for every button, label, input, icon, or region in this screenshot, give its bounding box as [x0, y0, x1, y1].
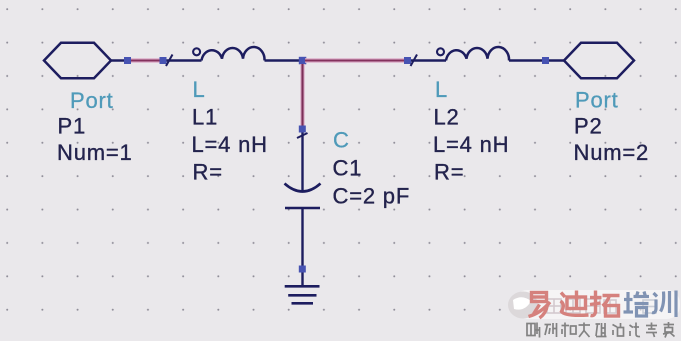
svg-text:Port: Port — [70, 88, 114, 113]
wire net2 horizontal — [305, 58, 405, 63]
watermark char 易 — [529, 293, 551, 319]
watermark background bar — [514, 290, 680, 319]
watermark char 迪 — [561, 291, 589, 316]
pin square P1 term — [124, 57, 131, 64]
svg-text:L1: L1 — [192, 105, 218, 130]
inductor L2 — [411, 47, 542, 60]
svg-text:L=4 nH: L=4 nH — [192, 132, 268, 157]
svg-text:Port: Port — [575, 88, 619, 113]
watermark logo ellipse — [508, 292, 538, 319]
pin square L2 pin1 — [404, 57, 411, 64]
pin square L1 pin1 — [160, 57, 167, 64]
svg-text:L=4 nH: L=4 nH — [433, 132, 509, 157]
svg-text:L: L — [435, 77, 448, 102]
capacitor C1 — [285, 133, 321, 287]
watermark char 训 — [652, 291, 676, 318]
watermark faint under-text — [547, 299, 656, 313]
inductor L1 — [167, 47, 301, 61]
pin 1 tick L2 — [411, 55, 418, 67]
svg-text:C1: C1 — [333, 156, 363, 181]
port P1 — [44, 43, 125, 79]
watermark tagline 射频和天线设计专家 — [527, 322, 675, 338]
ground — [285, 286, 320, 303]
svg-text:P1: P1 — [58, 114, 87, 139]
label Port P1 — [57, 88, 133, 165]
label L1 — [192, 77, 268, 185]
wire net1 — [131, 58, 160, 63]
svg-text:R=: R= — [193, 160, 223, 185]
svg-text:P2: P2 — [574, 114, 603, 139]
svg-text:R=: R= — [434, 160, 464, 185]
pin 1 tick C1 — [297, 133, 308, 138]
label Port P2 — [574, 88, 650, 166]
svg-text:L: L — [193, 77, 206, 102]
watermark char 拓 — [590, 291, 620, 317]
pin 1 tick L1 — [166, 55, 173, 67]
svg-text:C=2 pF: C=2 pF — [333, 184, 411, 209]
watermark char 培 — [624, 292, 650, 317]
pin square P2 term — [542, 57, 549, 64]
pin square C1 pin1 — [299, 126, 306, 133]
svg-text:Num=1: Num=1 — [57, 140, 133, 165]
node junction square — [299, 57, 307, 65]
svg-text:C: C — [333, 127, 350, 152]
port P2 — [549, 43, 634, 79]
wire net2 vertical — [300, 64, 304, 126]
pin square ground — [299, 266, 306, 273]
svg-text:Num=2: Num=2 — [574, 140, 650, 165]
svg-text:L2: L2 — [434, 105, 460, 130]
label C1 — [333, 127, 411, 208]
label L2 — [433, 77, 509, 185]
